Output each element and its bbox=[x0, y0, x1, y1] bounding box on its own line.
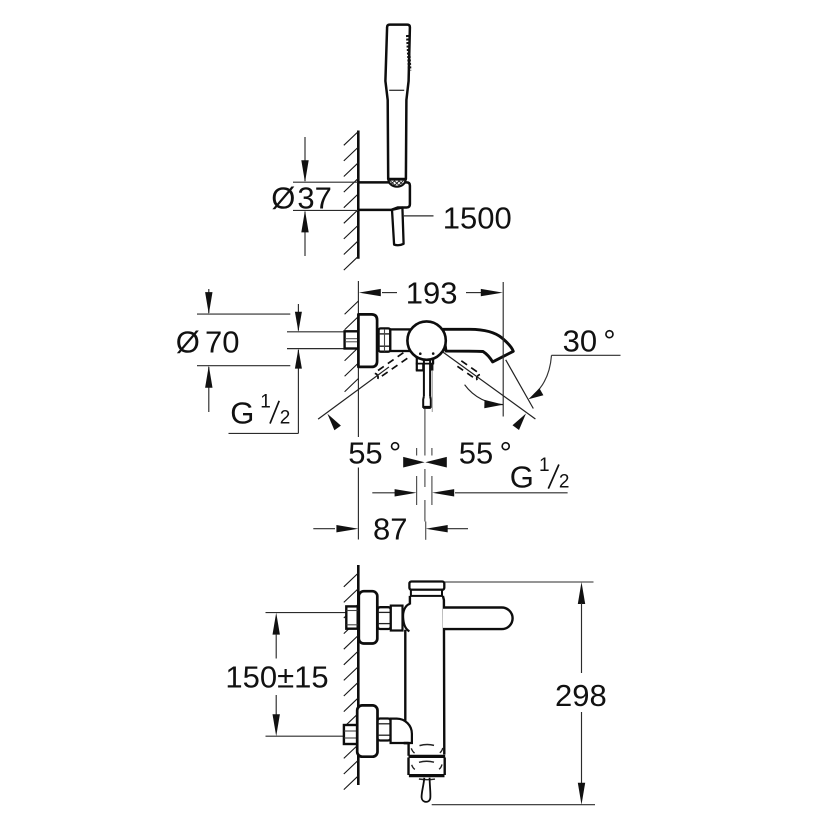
svg-text:55 °: 55 ° bbox=[348, 436, 401, 471]
inner shading arcs bbox=[420, 745, 435, 746]
mixer body (front circle) bbox=[407, 321, 445, 359]
top cap bbox=[409, 582, 444, 590]
wall extension line (front view, mounting face / 87 reference) bbox=[357, 281, 359, 314]
wall (side view) bbox=[357, 565, 360, 785]
tangent arrow on right 55 line bbox=[513, 414, 527, 431]
upper union ball bbox=[403, 604, 410, 632]
hand shower head and handle bbox=[385, 25, 410, 179]
dashed lever, rotated +55 deg (right) bbox=[457, 361, 481, 380]
55/55 bowtie arrows at handle centerline bbox=[403, 457, 425, 468]
escutcheon (front view, O70 flange) bbox=[358, 314, 377, 367]
svg-text:2: 2 bbox=[559, 472, 570, 493]
hex union nut (front view) bbox=[379, 328, 391, 351]
dimension 150+-15: extension lines bbox=[266, 612, 347, 614]
dimension O70: extension lines bbox=[197, 313, 290, 315]
leader line to 1500 bbox=[404, 215, 434, 217]
dimension O37: dimension line + arrows bbox=[304, 137, 306, 181]
indicator dots bbox=[419, 352, 422, 355]
grip separation line bbox=[389, 89, 404, 91]
dimension 87 bbox=[313, 528, 335, 530]
cone seal crosshatched half-disc bbox=[388, 180, 405, 187]
svg-text:70: 70 bbox=[205, 325, 239, 360]
svg-text:87: 87 bbox=[373, 512, 407, 547]
upper hex nut bbox=[378, 607, 391, 629]
lower hex nut bbox=[378, 719, 391, 741]
30 deg spout axis line bbox=[506, 360, 534, 409]
30 deg angular arc bbox=[465, 385, 504, 405]
lever handle (side view) bbox=[443, 608, 513, 630]
lower escutcheon (side) bbox=[357, 705, 377, 756]
wall hatching (top view) bbox=[344, 132, 359, 271]
55 deg axis line (left) bbox=[318, 367, 389, 419]
wall (top view) bbox=[357, 131, 360, 259]
lower supply: stub behind wall bbox=[344, 725, 358, 744]
svg-text:G: G bbox=[510, 460, 534, 495]
small diameter dim at supply nipple bbox=[297, 304, 299, 331]
svg-text:37: 37 bbox=[297, 181, 331, 216]
shower hose bbox=[392, 208, 404, 246]
upper adapter bbox=[391, 606, 403, 631]
svg-text:1: 1 bbox=[539, 455, 550, 476]
wall hatching (front view) bbox=[345, 301, 359, 392]
cup bottom rim shadow bbox=[419, 778, 435, 781]
svg-text:2: 2 bbox=[280, 408, 291, 429]
svg-text:Ø: Ø bbox=[271, 181, 295, 216]
svg-text:150±15: 150±15 bbox=[225, 660, 328, 695]
dimension O37: extension lines bbox=[293, 181, 358, 183]
G1/2 supply nipple (thin pipe lines) bbox=[287, 331, 345, 333]
dimension 298: extension lines bbox=[445, 581, 594, 583]
svg-text:193: 193 bbox=[406, 275, 458, 310]
dimension 150+-15: dim line + arrows bbox=[273, 613, 280, 635]
svg-text:55 °: 55 ° bbox=[459, 436, 512, 471]
lever handle (front view, vertical position) bbox=[416, 358, 434, 408]
svg-text:1: 1 bbox=[260, 391, 271, 412]
wall bracket / holder bbox=[358, 182, 410, 210]
faucet body (side view) bbox=[405, 596, 444, 756]
30 deg leader bbox=[552, 354, 621, 356]
svg-text:30 °: 30 ° bbox=[563, 324, 616, 359]
connector pipe to body bbox=[390, 329, 410, 351]
dashed lever, rotated -55 deg (left) bbox=[374, 353, 407, 379]
upper escutcheon (side) bbox=[359, 591, 378, 643]
lower elbow to diverter bbox=[391, 719, 412, 743]
spray face strip bbox=[408, 35, 410, 71]
center/extension lines below handle bbox=[424, 409, 426, 456]
spout (front view) bbox=[443, 329, 513, 362]
upper supply: stub behind wall bbox=[346, 606, 357, 628]
white gap for left 55 label over wall line bbox=[346, 438, 399, 466]
dimension O70: dimension line + arrows bbox=[208, 289, 210, 313]
dimension 193: line, arrows, label bbox=[382, 292, 397, 294]
tangent arrow on left 55 line bbox=[327, 414, 341, 431]
wall hatching (side view) bbox=[344, 573, 359, 790]
threaded stub behind wall bbox=[345, 331, 359, 348]
dimension G1/2 (handle connection): arrows bbox=[372, 492, 395, 494]
svg-text:G: G bbox=[230, 396, 254, 431]
dimension 193: extension line (right) bbox=[502, 282, 504, 417]
dimension 298: dim line + arrows bbox=[578, 582, 585, 604]
svg-text:Ø: Ø bbox=[176, 325, 200, 360]
hose outlet drop bbox=[422, 778, 431, 802]
55 deg axis line (right) bbox=[443, 352, 535, 419]
svg-text:1500: 1500 bbox=[443, 201, 512, 236]
svg-text:298: 298 bbox=[555, 678, 607, 713]
diverter cup bbox=[409, 755, 446, 758]
